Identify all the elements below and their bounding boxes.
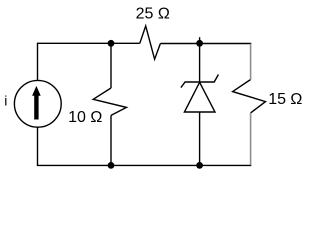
resistor 15ohm [233, 80, 266, 113]
node dot bottom right [196, 162, 203, 169]
node dot top right [196, 40, 203, 47]
wire top left horizontal [38, 43, 140, 81]
wire zener branch upper [199, 37, 201, 82]
svg-text:i: i [4, 93, 7, 109]
node dot top left [108, 40, 115, 47]
zener diode triangle [184, 82, 215, 112]
wire bottom horizontal [38, 127, 252, 165]
wire zener branch lower [199, 112, 201, 165]
node dot bottom left [108, 162, 115, 169]
current source arrow [32, 86, 41, 120]
wire right rail lower (gray) [250, 113, 252, 165]
wire branch 10ohm lower [110, 115, 112, 165]
svg-text:25 Ω: 25 Ω [136, 6, 170, 23]
svg-text:15 Ω: 15 Ω [268, 91, 302, 108]
wire right rail upper (gray) [250, 44, 252, 80]
zener diode bar with tails [181, 75, 219, 88]
resistor R 25ohm [140, 26, 161, 59]
current source I circle [14, 80, 61, 127]
svg-text:10 Ω: 10 Ω [68, 109, 102, 126]
resistor 10ohm [93, 88, 126, 115]
wire branch 10ohm upper [110, 43, 112, 88]
wire top right horizontal [160, 43, 251, 45]
